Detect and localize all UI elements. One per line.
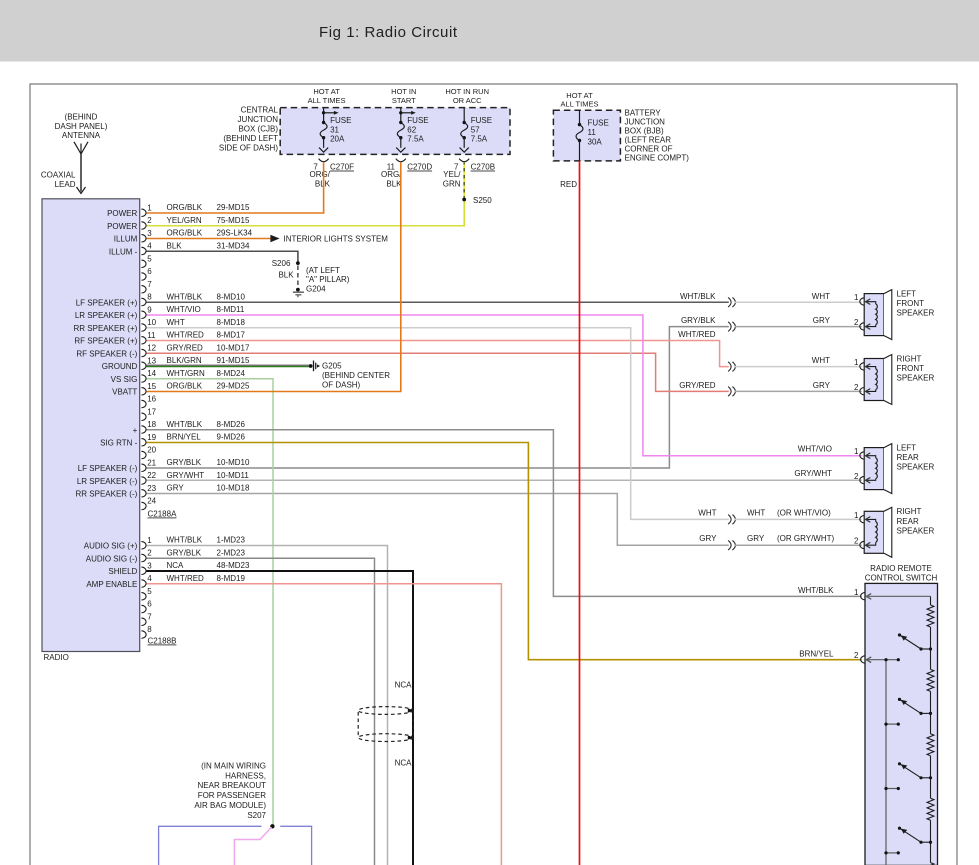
- svg-text:NEAR BREAKOUT: NEAR BREAKOUT: [198, 781, 267, 790]
- svg-text:POWER: POWER: [107, 222, 137, 231]
- coaxial lead wire: [80, 154, 82, 192]
- wire WHT to LF speaker 1: [735, 301, 862, 303]
- svg-text:YEL/: YEL/: [443, 170, 461, 179]
- svg-text:NCA: NCA: [395, 680, 413, 689]
- svg-text:24: 24: [147, 497, 156, 506]
- svg-text:WHT/RED: WHT/RED: [167, 574, 205, 583]
- svg-text:3: 3: [147, 229, 152, 238]
- wire VIO to air bag module: [234, 827, 271, 865]
- svg-text:BLK: BLK: [315, 179, 331, 188]
- wire GRY to LF speaker 2: [735, 326, 862, 328]
- svg-text:+: +: [133, 426, 138, 435]
- ground G205: [309, 364, 313, 368]
- svg-text:2: 2: [854, 651, 859, 660]
- svg-text:DASH PANEL): DASH PANEL): [55, 122, 108, 131]
- svg-text:AUDIO SIG (+): AUDIO SIG (+): [84, 542, 138, 551]
- wire NCA shield (C2188B pin3): [147, 571, 414, 865]
- svg-text:S206: S206: [272, 259, 291, 268]
- svg-text:7: 7: [147, 612, 152, 621]
- svg-text:POWER: POWER: [107, 209, 137, 218]
- svg-text:C2188B: C2188B: [148, 637, 177, 646]
- remote switch pin arcs: [861, 593, 866, 600]
- wire BLK pin4 to S206: [147, 251, 298, 261]
- svg-text:(LEFT REAR: (LEFT REAR: [625, 135, 672, 144]
- svg-text:LEFT: LEFT: [897, 444, 917, 453]
- splice S250: [462, 198, 466, 202]
- wire YEL/GRN dashed S250 to fuse 57: [463, 162, 465, 199]
- svg-text:3: 3: [147, 561, 152, 570]
- svg-text:GRY: GRY: [747, 534, 765, 543]
- svg-text:CONTROL SWITCH: CONTROL SWITCH: [865, 574, 938, 583]
- svg-text:1-MD23: 1-MD23: [217, 536, 246, 545]
- svg-text:LR SPEAKER (+): LR SPEAKER (+): [75, 311, 138, 320]
- svg-text:AUDIO SIG (-): AUDIO SIG (-): [86, 554, 138, 563]
- interior lights arrow: [270, 235, 279, 242]
- svg-text:10-MD11: 10-MD11: [217, 471, 250, 480]
- svg-text:ALL TIMES: ALL TIMES: [308, 96, 346, 105]
- svg-text:RIGHT: RIGHT: [897, 507, 922, 516]
- svg-text:(BEHIND: (BEHIND: [65, 113, 98, 122]
- svg-text:WHT: WHT: [812, 292, 830, 301]
- svg-text:BOX (CJB): BOX (CJB): [238, 124, 278, 133]
- svg-text:ORG/BLK: ORG/BLK: [167, 229, 203, 238]
- svg-text:WHT/RED: WHT/RED: [167, 331, 205, 340]
- inline connector pin11: [728, 362, 731, 372]
- svg-text:LF SPEAKER (+): LF SPEAKER (+): [76, 298, 138, 307]
- remote switch wiper arms: [898, 633, 901, 636]
- svg-text:10-MD17: 10-MD17: [217, 343, 250, 352]
- svg-text:2: 2: [147, 549, 152, 558]
- radio connector C2188B pin arcs and numbers: [141, 542, 146, 549]
- svg-text:5: 5: [147, 587, 152, 596]
- svg-text:1: 1: [147, 536, 152, 545]
- svg-text:NCA: NCA: [395, 758, 413, 767]
- svg-text:2-MD23: 2-MD23: [217, 548, 246, 557]
- svg-text:10-MD10: 10-MD10: [217, 458, 250, 467]
- svg-text:VBATT: VBATT: [112, 388, 137, 397]
- svg-text:8: 8: [147, 625, 152, 634]
- svg-text:21: 21: [147, 458, 156, 467]
- svg-text:8-MD19: 8-MD19: [217, 574, 246, 583]
- svg-text:YEL/GRN: YEL/GRN: [167, 216, 202, 225]
- svg-text:WHT/VIO: WHT/VIO: [798, 444, 832, 453]
- svg-text:ORG/BLK: ORG/BLK: [167, 382, 203, 391]
- svg-text:29-MD15: 29-MD15: [217, 203, 250, 212]
- svg-text:13: 13: [147, 356, 156, 365]
- remote switch wiper taps: [867, 659, 899, 661]
- svg-text:SPEAKER: SPEAKER: [897, 463, 935, 472]
- svg-text:20: 20: [147, 446, 156, 455]
- svg-text:11: 11: [147, 331, 156, 340]
- svg-text:SIDE OF DASH): SIDE OF DASH): [219, 144, 278, 153]
- svg-text:C270F: C270F: [330, 163, 354, 172]
- svg-text:5: 5: [147, 254, 152, 263]
- svg-text:COAXIAL: COAXIAL: [41, 171, 76, 180]
- svg-text:REAR: REAR: [897, 453, 919, 462]
- svg-text:10-MD18: 10-MD18: [217, 484, 250, 493]
- svg-text:20A: 20A: [330, 135, 345, 144]
- svg-text:ILLUM: ILLUM: [114, 235, 138, 244]
- svg-text:BLK: BLK: [167, 241, 183, 250]
- wire WHT to RF speaker 1: [735, 366, 862, 368]
- svg-text:8-MD17: 8-MD17: [217, 331, 246, 340]
- svg-text:WHT/BLK: WHT/BLK: [680, 292, 716, 301]
- svg-text:RIGHT: RIGHT: [897, 354, 922, 363]
- svg-text:14: 14: [147, 369, 156, 378]
- svg-text:2: 2: [147, 216, 152, 225]
- svg-text:29S-LK34: 29S-LK34: [217, 229, 253, 238]
- svg-text:RADIO: RADIO: [44, 653, 69, 662]
- svg-text:WHT/BLK: WHT/BLK: [167, 420, 203, 429]
- svg-text:ILLUM -: ILLUM -: [109, 247, 138, 256]
- svg-text:GRY/WHT: GRY/WHT: [794, 469, 832, 478]
- svg-text:WHT: WHT: [812, 356, 830, 365]
- svg-text:8-MD11: 8-MD11: [217, 305, 245, 314]
- svg-text:1: 1: [854, 588, 859, 597]
- svg-text:GRY/RED: GRY/RED: [679, 381, 716, 390]
- svg-text:WHT: WHT: [698, 508, 716, 517]
- svg-text:C2188A: C2188A: [148, 510, 178, 519]
- wire WHT to RR speaker 1: [735, 518, 862, 520]
- svg-text:48-MD23: 48-MD23: [217, 561, 250, 570]
- wire BLK dashed S206 to G204: [297, 266, 299, 288]
- remote switch pin1 internal wire: [867, 595, 931, 597]
- svg-text:1: 1: [854, 293, 859, 302]
- svg-text:RADIO REMOTE: RADIO REMOTE: [870, 564, 932, 573]
- svg-text:LEFT: LEFT: [897, 290, 917, 299]
- svg-text:RR SPEAKER (+): RR SPEAKER (+): [74, 324, 138, 333]
- left rear speaker: [864, 448, 884, 490]
- svg-text:GRY: GRY: [813, 381, 831, 390]
- svg-text:FRONT: FRONT: [897, 364, 925, 373]
- svg-text:(BEHIND CENTER: (BEHIND CENTER: [322, 371, 390, 380]
- svg-text:(IN MAIN WIRING: (IN MAIN WIRING: [201, 761, 266, 770]
- svg-text:GRY/BLK: GRY/BLK: [167, 548, 202, 557]
- svg-text:2: 2: [854, 537, 859, 546]
- right rear speaker: [864, 511, 884, 553]
- inline connector pin21: [728, 322, 731, 332]
- svg-text:JUNCTION: JUNCTION: [625, 117, 666, 126]
- radio remote control switch box: [865, 583, 938, 865]
- svg-text:(BEHIND LEFT: (BEHIND LEFT: [223, 134, 278, 143]
- svg-text:2: 2: [854, 383, 859, 392]
- antenna symbol: [74, 142, 81, 154]
- wire RED fuse11 to bottom: [579, 161, 581, 865]
- svg-text:GRY: GRY: [167, 484, 185, 493]
- svg-text:75-MD15: 75-MD15: [217, 216, 250, 225]
- svg-text:G204: G204: [306, 285, 326, 294]
- svg-text:OF DASH): OF DASH): [322, 380, 361, 389]
- svg-text:62: 62: [407, 125, 416, 134]
- svg-text:SPEAKER: SPEAKER: [897, 374, 935, 383]
- svg-text:(OR GRY/WHT): (OR GRY/WHT): [777, 534, 835, 543]
- svg-text:WHT/GRN: WHT/GRN: [167, 369, 205, 378]
- svg-text:ALL TIMES: ALL TIMES: [561, 100, 599, 109]
- inline connector pin8: [728, 297, 731, 307]
- svg-text:7: 7: [147, 280, 152, 289]
- svg-text:7.5A: 7.5A: [407, 135, 424, 144]
- fuse 11 30A (BJB): [579, 110, 581, 124]
- svg-text:8-MD18: 8-MD18: [217, 318, 246, 327]
- svg-text:GRN: GRN: [443, 179, 461, 188]
- radio connector C2188A pin arcs and numbers: [141, 209, 146, 216]
- svg-text:SPEAKER: SPEAKER: [897, 309, 935, 318]
- svg-text:"A" PILLAR): "A" PILLAR): [306, 275, 350, 284]
- svg-text:6: 6: [147, 267, 152, 276]
- inline connector pin12: [728, 387, 731, 397]
- svg-text:FUSE: FUSE: [471, 116, 492, 125]
- remote switch resistor chain: [930, 596, 932, 605]
- remote switch left bus: [885, 660, 887, 865]
- svg-text:FRONT: FRONT: [897, 299, 925, 308]
- wire GRY/BLK audio- (C2188B pin2): [147, 558, 375, 865]
- svg-text:G205: G205: [322, 362, 342, 371]
- svg-text:ORG/: ORG/: [310, 170, 331, 179]
- svg-text:WHT/BLK: WHT/BLK: [798, 586, 834, 595]
- svg-text:16: 16: [147, 395, 156, 404]
- svg-text:OR ACC: OR ACC: [453, 96, 482, 105]
- svg-text:INTERIOR LIGHTS SYSTEM: INTERIOR LIGHTS SYSTEM: [284, 235, 389, 244]
- svg-text:START: START: [392, 96, 416, 105]
- svg-text:HARNESS,: HARNESS,: [225, 771, 266, 780]
- central junction box CJB: [280, 108, 510, 155]
- svg-text:4: 4: [147, 574, 152, 583]
- svg-text:GRY: GRY: [699, 534, 717, 543]
- svg-text:S207: S207: [247, 811, 266, 820]
- svg-text:GRY/WHT: GRY/WHT: [167, 471, 205, 480]
- svg-text:8: 8: [147, 293, 152, 302]
- svg-text:GRY/RED: GRY/RED: [167, 343, 204, 352]
- wire WHT/BLK pin8 segment: [147, 301, 729, 303]
- svg-text:FUSE: FUSE: [588, 119, 609, 128]
- svg-text:C270D: C270D: [407, 163, 432, 172]
- svg-text:WHT/BLK: WHT/BLK: [167, 536, 203, 545]
- radio U1 box: [42, 199, 140, 652]
- svg-text:19: 19: [147, 433, 156, 442]
- wire WHT/RED amp enable (C2188B pin4): [147, 584, 502, 865]
- svg-text:8-MD26: 8-MD26: [217, 420, 246, 429]
- svg-text:BLK: BLK: [278, 270, 294, 279]
- svg-text:LR SPEAKER (-): LR SPEAKER (-): [77, 477, 138, 486]
- svg-text:GRY/BLK: GRY/BLK: [681, 316, 716, 325]
- svg-text:RED: RED: [560, 180, 577, 189]
- svg-text:FUSE: FUSE: [407, 116, 428, 125]
- right front speaker: [864, 359, 884, 401]
- svg-text:4: 4: [147, 242, 152, 251]
- svg-text:REAR: REAR: [897, 517, 919, 526]
- splice S207: [270, 824, 274, 828]
- splice S206: [296, 261, 300, 265]
- svg-text:1: 1: [854, 358, 859, 367]
- title banner: [0, 0, 979, 62]
- svg-text:WHT/RED: WHT/RED: [678, 330, 716, 339]
- svg-text:BATTERY: BATTERY: [625, 108, 662, 117]
- svg-text:2: 2: [854, 472, 859, 481]
- svg-text:HOT AT: HOT AT: [566, 91, 593, 100]
- svg-text:18: 18: [147, 420, 156, 429]
- svg-text:Fig 1: Radio Circuit: Fig 1: Radio Circuit: [319, 24, 458, 41]
- svg-text:NCA: NCA: [167, 561, 185, 570]
- shield symbol around audio wires: [358, 707, 413, 715]
- svg-text:1: 1: [854, 447, 859, 456]
- wire GRY/WHT pin22: [147, 479, 862, 481]
- svg-text:6: 6: [147, 600, 152, 609]
- svg-text:GROUND: GROUND: [102, 362, 138, 371]
- svg-text:HOT IN: HOT IN: [391, 87, 416, 96]
- svg-text:91-MD15: 91-MD15: [217, 356, 250, 365]
- svg-text:GRY/BLK: GRY/BLK: [167, 458, 202, 467]
- svg-text:WHT/VIO: WHT/VIO: [167, 305, 201, 314]
- svg-text:12: 12: [147, 344, 156, 353]
- svg-text:1: 1: [854, 511, 859, 520]
- svg-text:23: 23: [147, 484, 156, 493]
- svg-text:2: 2: [854, 318, 859, 327]
- wire ORG/BLK pin3 to interior lights: [147, 238, 271, 240]
- svg-text:SPEAKER: SPEAKER: [897, 526, 935, 535]
- wire ORG/BLK pin1 to fuse 31: [147, 162, 324, 213]
- svg-text:29-MD25: 29-MD25: [217, 382, 250, 391]
- battery junction box BJB: [553, 110, 620, 161]
- svg-text:31: 31: [330, 125, 339, 134]
- ground G204: [296, 288, 300, 292]
- wire BLK/GRN pin13 to G205: [147, 364, 309, 366]
- wire GRY/BLK pin21: [147, 327, 729, 468]
- svg-text:57: 57: [471, 125, 480, 134]
- wire GRY pin23: [147, 494, 729, 546]
- svg-text:FOR PASSENGER: FOR PASSENGER: [198, 791, 267, 800]
- svg-text:WHT/BLK: WHT/BLK: [167, 292, 203, 301]
- svg-text:LEAD: LEAD: [55, 180, 76, 189]
- svg-text:WHT: WHT: [167, 318, 185, 327]
- wire GRY/RED pin12: [147, 353, 729, 391]
- svg-text:17: 17: [147, 407, 156, 416]
- svg-text:BRN/YEL: BRN/YEL: [167, 433, 202, 442]
- svg-text:FUSE: FUSE: [330, 116, 351, 125]
- svg-text:7.5A: 7.5A: [471, 135, 488, 144]
- svg-text:WHT: WHT: [747, 508, 765, 517]
- svg-text:RF SPEAKER (+): RF SPEAKER (+): [74, 337, 137, 346]
- svg-text:8-MD24: 8-MD24: [217, 369, 246, 378]
- inline connector pin10: [728, 515, 731, 525]
- svg-text:SIG RTN -: SIG RTN -: [100, 439, 138, 448]
- svg-text:1: 1: [147, 203, 152, 212]
- svg-text:S250: S250: [473, 196, 492, 205]
- left front speaker: [864, 294, 884, 336]
- svg-text:(OR WHT/VIO): (OR WHT/VIO): [777, 508, 831, 517]
- svg-text:HOT IN RUN: HOT IN RUN: [445, 87, 489, 96]
- svg-text:BOX (BJB): BOX (BJB): [625, 126, 664, 135]
- svg-text:8-MD10: 8-MD10: [217, 292, 246, 301]
- svg-text:HOT AT: HOT AT: [313, 87, 340, 96]
- svg-text:VS SIG: VS SIG: [111, 375, 138, 384]
- svg-text:BRN/YEL: BRN/YEL: [799, 650, 834, 659]
- svg-text:22: 22: [147, 471, 156, 480]
- wire WHT/BLK pin18 to remote switch: [147, 430, 862, 597]
- wire GRY to RF speaker 2: [735, 390, 862, 392]
- svg-text:JUNCTION: JUNCTION: [238, 115, 279, 124]
- svg-text:9-MD26: 9-MD26: [217, 433, 246, 442]
- svg-text:CENTRAL: CENTRAL: [241, 105, 279, 114]
- svg-text:RF SPEAKER (-): RF SPEAKER (-): [76, 349, 137, 358]
- wire WHT pin10: [147, 328, 729, 520]
- wire YEL/GRN pin2 to S250: [147, 200, 465, 226]
- wire WHT/GRN pin14 to S207: [147, 379, 274, 825]
- svg-text:AIR BAG MODULE): AIR BAG MODULE): [194, 801, 266, 810]
- wire WHT/BLK audio+ (C2188B pin1): [147, 546, 388, 865]
- svg-text:9: 9: [147, 305, 152, 314]
- svg-text:ENGINE COMPT): ENGINE COMPT): [625, 153, 690, 162]
- svg-text:(AT LEFT: (AT LEFT: [306, 266, 340, 275]
- wire BRN/YEL pin19 to remote switch: [147, 443, 862, 660]
- svg-text:LF SPEAKER (-): LF SPEAKER (-): [78, 464, 138, 473]
- wire WHT/VIO pin9: [147, 315, 862, 456]
- wire WHT/RED pin11: [147, 341, 729, 367]
- svg-text:AMP ENABLE: AMP ENABLE: [86, 580, 137, 589]
- svg-text:ANTENNA: ANTENNA: [62, 131, 101, 140]
- svg-text:GRY: GRY: [813, 316, 831, 325]
- wire ORG/BLK pin15 to fuse 62: [147, 162, 401, 391]
- svg-text:SHIELD: SHIELD: [108, 567, 137, 576]
- svg-text:BLK: BLK: [386, 179, 402, 188]
- svg-text:RR SPEAKER (-): RR SPEAKER (-): [76, 490, 138, 499]
- svg-text:31-MD34: 31-MD34: [217, 241, 250, 250]
- svg-text:11: 11: [588, 128, 597, 137]
- wire GRY to RR speaker 2: [735, 544, 862, 546]
- inline connector pin23: [728, 540, 731, 550]
- svg-text:C270B: C270B: [471, 163, 495, 172]
- svg-text:ORG/BLK: ORG/BLK: [167, 203, 203, 212]
- svg-text:ORG/: ORG/: [381, 170, 402, 179]
- svg-text:10: 10: [147, 318, 156, 327]
- svg-text:30A: 30A: [588, 137, 603, 146]
- svg-text:CORNER OF: CORNER OF: [625, 144, 673, 153]
- svg-text:BLK/GRN: BLK/GRN: [167, 356, 202, 365]
- air bag module box: [159, 826, 262, 865]
- svg-text:15: 15: [147, 382, 156, 391]
